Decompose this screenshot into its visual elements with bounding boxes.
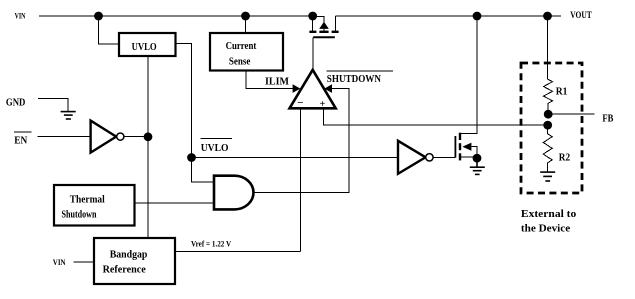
node: VOUT junction to Q2 drain bbox=[473, 12, 482, 21]
wire: VIN to Bandgap Reference bbox=[73, 261, 94, 263]
svg-text:VOUT: VOUT bbox=[570, 10, 592, 20]
svg-text:EN: EN bbox=[14, 135, 28, 146]
wire: AND output up to SHUTDOWN arrow bbox=[254, 89, 349, 193]
node: EN inverter output junction bbox=[144, 132, 153, 141]
block Thermal Shutdown U7 bbox=[54, 185, 135, 226]
block Current Sense U6 bbox=[210, 33, 283, 71]
wire: rail down to Current Sense top bbox=[245, 16, 247, 33]
wire: GND pin lead bbox=[38, 98, 68, 111]
svg-text:−: − bbox=[297, 97, 303, 109]
svg-text:GND: GND bbox=[6, 96, 26, 108]
ground: R2 bottom symbol bbox=[540, 172, 555, 181]
label: External to the Device bbox=[521, 208, 577, 234]
wire: Q1 gate down to U1 output bbox=[312, 37, 314, 70]
ground: Q2 source symbol bbox=[470, 158, 485, 174]
svg-text:Reference: Reference bbox=[103, 264, 146, 276]
wire: UVLO output right then down to UVLO-bar node and AND input bbox=[176, 44, 215, 183]
node: UVLO-bar junction bbox=[187, 153, 196, 162]
svg-text:R1: R1 bbox=[556, 86, 568, 97]
pin label VIN bbox=[15, 12, 26, 21]
wire: Current Sense output to ILIM arrow bbox=[246, 71, 293, 89]
inverter U2 EN buffer bbox=[91, 121, 124, 153]
svg-text:VIN: VIN bbox=[53, 258, 66, 267]
op-amp U1 gate drive comparator bbox=[290, 70, 336, 110]
ground: GND pin symbol bbox=[61, 112, 76, 119]
wire: Bandgap Vref output to U1 minus bbox=[175, 251, 300, 253]
inverter U3 discharge driver bbox=[398, 141, 433, 174]
svg-text:Bandgap: Bandgap bbox=[110, 249, 148, 261]
node: PMOS source junction on rail bbox=[308, 12, 317, 21]
wire: Thermal Shutdown output to AND input bbox=[135, 202, 215, 204]
svg-text:UVLO: UVLO bbox=[201, 142, 229, 154]
resistor R2 bbox=[543, 125, 570, 172]
wire: U2 output to junction bbox=[124, 136, 148, 138]
node: Q2 source-body junction bbox=[473, 154, 482, 163]
and-gate U4 bbox=[214, 176, 253, 210]
wire: UVLO bottom down to bandgap enable bbox=[147, 56, 149, 238]
wire: VIN top rail left segment bbox=[39, 15, 311, 17]
wire: U1 plus input to FB node bbox=[324, 108, 548, 125]
wire: top rail right segment to VOUT bbox=[335, 15, 561, 17]
transistor Q1 PMOS pass FET with body diode bbox=[309, 16, 338, 37]
block UVLO U5 bbox=[119, 33, 176, 56]
svg-text:+: + bbox=[320, 99, 326, 110]
wire: FB node to FB pin bbox=[548, 113, 595, 115]
pin label VIN bandgap supply bbox=[53, 258, 66, 267]
svg-text:Sense: Sense bbox=[229, 56, 251, 68]
wire: rail down to UVLO input bbox=[99, 16, 120, 44]
svg-text:Thermal: Thermal bbox=[70, 194, 105, 206]
svg-text:the Device: the Device bbox=[521, 223, 570, 235]
node: FB upper junction bbox=[544, 110, 553, 119]
node: FB lower junction bbox=[543, 121, 552, 130]
wire: U1 minus input down to Vref bbox=[299, 108, 301, 251]
node: rail junction to UVLO bbox=[94, 12, 103, 21]
svg-text:SHUTDOWN: SHUTDOWN bbox=[327, 73, 381, 85]
block Bandgap Reference U8 bbox=[94, 238, 175, 284]
svg-text:Current: Current bbox=[226, 40, 257, 52]
svg-text:Vref = 1.22 V: Vref = 1.22 V bbox=[191, 240, 231, 249]
transistor Q2 NMOS discharge FET with body diode bbox=[455, 16, 477, 160]
net label Vref = 1.22 V bbox=[191, 240, 231, 249]
node: VOUT junction to R1 bbox=[543, 12, 552, 21]
arrow: SHUTDOWN into op-amp U1 bbox=[324, 84, 332, 93]
svg-text:External to: External to bbox=[521, 208, 577, 220]
svg-text:Shutdown: Shutdown bbox=[62, 209, 97, 221]
net label ILIM bbox=[265, 76, 290, 88]
svg-text:VIN: VIN bbox=[15, 12, 26, 21]
svg-text:UVLO: UVLO bbox=[132, 41, 157, 53]
node: rail junction to Current Sense bbox=[241, 12, 250, 21]
wire: VOUT down to R1 bbox=[547, 16, 549, 79]
svg-text:R2: R2 bbox=[559, 152, 570, 163]
resistor R1 bbox=[544, 79, 568, 114]
pin label FB bbox=[602, 114, 613, 125]
arrow: ILIM into op-amp U1 bbox=[293, 84, 301, 93]
wire: U3 output to Q2 gate bbox=[433, 156, 455, 158]
pin label VOUT bbox=[570, 10, 592, 20]
pin label EN-bar bbox=[14, 132, 31, 147]
dashed box: external components bbox=[521, 63, 582, 193]
wire: EN input to inverter U2 bbox=[38, 136, 91, 138]
svg-text:FB: FB bbox=[602, 114, 613, 125]
net label SHUTDOWN bbox=[327, 71, 394, 85]
net label UVLO-bar bbox=[201, 139, 232, 155]
pin label GND bbox=[6, 96, 26, 108]
svg-text:ILIM: ILIM bbox=[265, 76, 290, 88]
wire: UVLO-bar net to inverter U3 input bbox=[192, 157, 399, 159]
